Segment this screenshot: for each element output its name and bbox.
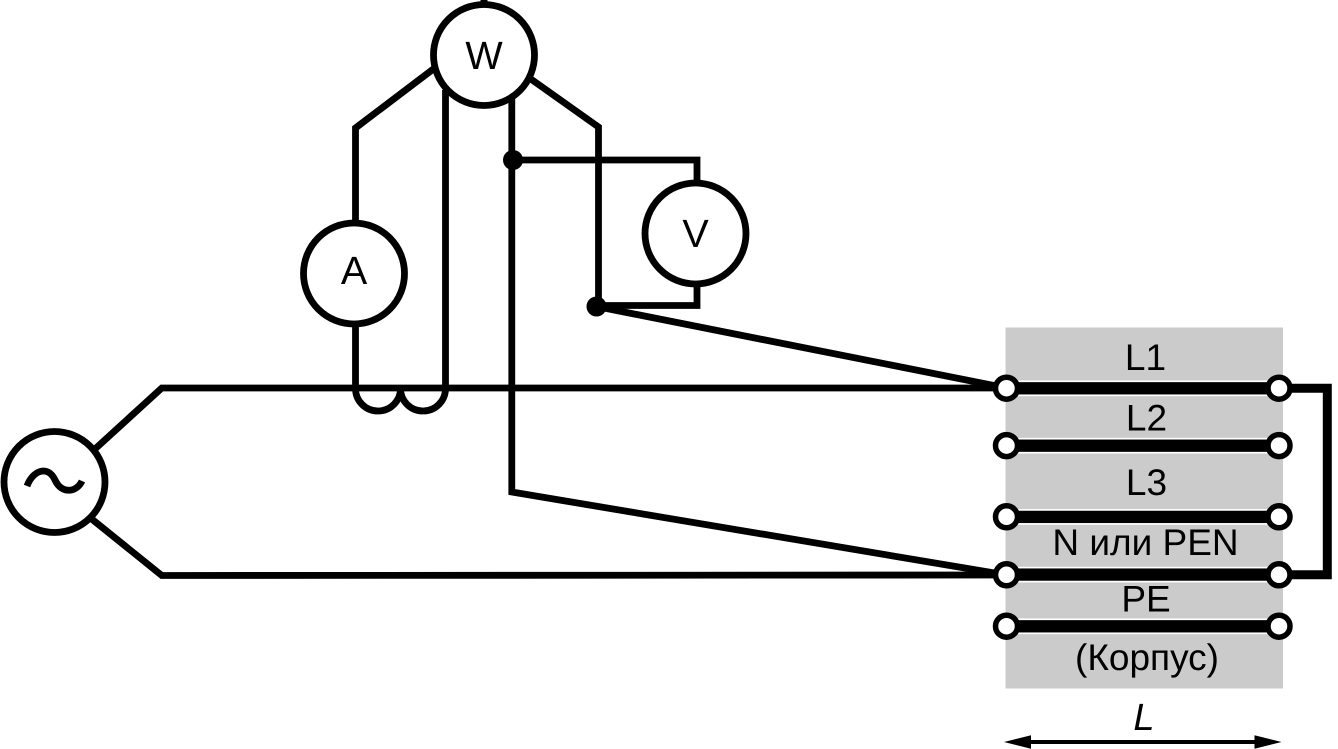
ammeter A	[304, 223, 405, 324]
voltmeter V	[645, 183, 746, 284]
svg-text:V: V	[682, 212, 709, 256]
junction dot at V bottom	[587, 297, 607, 317]
terminal L2 left	[996, 435, 1018, 457]
terminal L1 right	[1268, 377, 1290, 399]
wire: ammeter branch top (A to W)	[356, 67, 437, 226]
AC source sine symbol	[27, 471, 82, 490]
terminal N right	[1268, 564, 1290, 586]
bus bar L2	[1003, 439, 1280, 453]
terminal L2 right	[1268, 435, 1290, 457]
terminal N left	[996, 564, 1018, 586]
terminal L3 left	[996, 506, 1018, 528]
dimension arrow line L	[1012, 740, 1274, 744]
wire: N line from source to terminal	[89, 517, 1007, 576]
shorting link bracket L1 to N	[1279, 388, 1327, 575]
bus bar PE	[1003, 619, 1280, 633]
terminal L1 left	[996, 377, 1018, 399]
terminal PE left	[996, 615, 1018, 637]
junction dot on W voltage lead	[503, 150, 523, 170]
wattmeter W	[434, 5, 535, 106]
wire: W right diagonal to V branch	[528, 77, 599, 307]
wire: L1 line from source to terminal	[93, 388, 1007, 451]
AC source G	[4, 432, 105, 533]
svg-text:W: W	[465, 34, 503, 78]
terminal block body (load)	[1006, 328, 1284, 689]
dimension arrowhead left	[1004, 735, 1031, 748]
svg-text:PE: PE	[1121, 579, 1170, 620]
terminal PE right	[1268, 615, 1290, 637]
terminal L3 right	[1268, 506, 1290, 528]
dimension arrowhead right	[1255, 735, 1282, 748]
wire: diagonal from V junction to L1 terminal	[597, 307, 1007, 389]
bus bar N	[1003, 568, 1280, 582]
svg-text:L1: L1	[1125, 337, 1166, 378]
bus bar L1	[1003, 381, 1280, 395]
svg-text:L3: L3	[1126, 462, 1167, 503]
svg-text:L2: L2	[1126, 398, 1167, 439]
wire: W voltage coil lead down to N terminal	[512, 97, 1007, 575]
wire: W current coil return	[442, 90, 449, 389]
wire stub at top of W	[481, 0, 488, 10]
svg-text:A: A	[341, 249, 368, 293]
bus bar L3	[1003, 510, 1280, 524]
current transformer loop under L1 wire	[356, 389, 446, 412]
svg-text:L: L	[1133, 697, 1154, 739]
svg-text:N или PEN: N или PEN	[1052, 522, 1238, 563]
wire: V meter loop	[513, 160, 697, 306]
wire: ammeter branch bottom (A to CT loop)	[352, 322, 359, 389]
svg-text:(Корпус): (Корпус)	[1075, 637, 1219, 678]
